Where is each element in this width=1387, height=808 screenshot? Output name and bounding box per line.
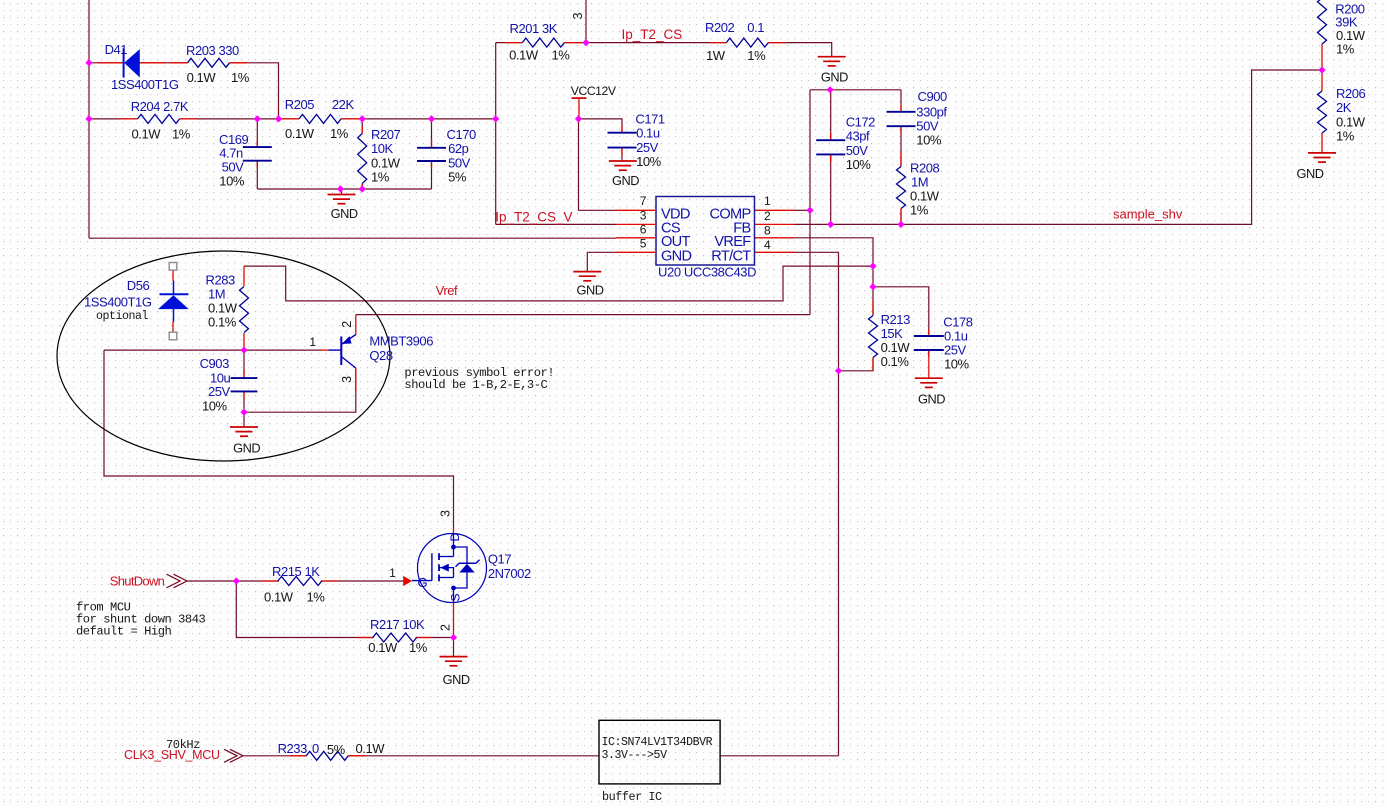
pin stubs C172 xyxy=(830,133,832,140)
svg-text:2: 2 xyxy=(340,321,354,328)
svg-text:Ip_T2_CS: Ip_T2_CS xyxy=(622,27,683,42)
pin stubs U20 left xyxy=(616,209,655,211)
svg-text:1%: 1% xyxy=(371,170,390,185)
svg-text:R204 2.7K: R204 2.7K xyxy=(131,99,189,114)
svg-text:C171: C171 xyxy=(635,112,664,127)
svg-text:GND: GND xyxy=(443,672,470,687)
svg-text:1%: 1% xyxy=(747,48,766,63)
wire R215 to gate arrow xyxy=(321,580,404,582)
wire ShutDown down to R217 row xyxy=(236,581,373,638)
wire base net left + down xyxy=(104,350,454,528)
svg-text:S: S xyxy=(449,593,463,601)
svg-text:3: 3 xyxy=(571,13,585,20)
svg-text:70kHz: 70kHz xyxy=(166,738,200,752)
svg-text:50V: 50V xyxy=(916,119,939,134)
svg-text:5: 5 xyxy=(640,236,647,250)
transistor Q28 xyxy=(329,349,342,351)
svg-text:1: 1 xyxy=(309,335,316,349)
svg-text:3: 3 xyxy=(340,376,354,383)
pin stubs C170 xyxy=(431,140,433,148)
resistor R207 xyxy=(358,134,367,184)
wire R283 top lead xyxy=(243,266,245,286)
pin stub D41 left xyxy=(98,62,124,64)
svg-text:buffer IC: buffer IC xyxy=(602,790,662,804)
svg-text:R208: R208 xyxy=(910,161,939,176)
svg-text:1: 1 xyxy=(764,194,771,208)
transistor Q17 xyxy=(418,534,487,603)
svg-text:10%: 10% xyxy=(219,174,245,189)
resistor R204 xyxy=(138,114,180,123)
svg-text:7: 7 xyxy=(640,194,647,208)
svg-text:C900: C900 xyxy=(918,89,947,104)
svg-text:0.1u: 0.1u xyxy=(636,126,660,141)
wire R204 row a xyxy=(89,118,138,120)
wire VCC node to C171 xyxy=(579,119,623,133)
svg-text:1M: 1M xyxy=(911,175,928,190)
wire C169 top lead xyxy=(256,119,258,147)
svg-text:1W: 1W xyxy=(706,48,726,63)
svg-text:default = High: default = High xyxy=(76,625,171,639)
resistor R206 xyxy=(1318,91,1327,133)
wire top right horizontal y89.8 xyxy=(810,89,901,91)
GND symbol C171 xyxy=(609,160,637,162)
resistor R217 xyxy=(373,633,417,642)
svg-text:0.1W: 0.1W xyxy=(910,189,940,204)
gate arrow Q17 pin 1 xyxy=(404,576,412,585)
svg-text:GND: GND xyxy=(612,173,639,188)
svg-text:GND: GND xyxy=(233,441,260,456)
wire GND stem R207 row xyxy=(341,189,343,195)
wire OUT net to U20 pin 6 xyxy=(89,237,616,239)
wire C178 branch xyxy=(873,287,929,336)
wire ShutDown to R215 xyxy=(187,580,279,582)
svg-text:R207: R207 xyxy=(371,127,400,142)
GND symbol R207 row xyxy=(328,194,356,196)
wire left vertical bus x=89 xyxy=(88,0,90,238)
svg-text:1SS400T1G: 1SS400T1G xyxy=(111,77,179,92)
svg-text:8: 8 xyxy=(764,223,771,237)
GND symbol C178 xyxy=(915,377,943,379)
svg-text:D41: D41 xyxy=(105,42,128,57)
svg-text:330pf: 330pf xyxy=(916,105,947,120)
svg-text:1M: 1M xyxy=(208,287,225,302)
wire C171 to GND xyxy=(621,148,623,161)
wire VCC12V stem xyxy=(578,98,580,119)
wire node to C903 xyxy=(243,350,245,378)
wire Q28 collector lead xyxy=(244,368,356,412)
svg-text:ShutDown: ShutDown xyxy=(110,574,165,589)
wire C903 bottom lead xyxy=(243,391,245,412)
wire VREF row to R213 top xyxy=(795,238,874,287)
GND symbol R202 xyxy=(818,56,846,58)
svg-text:should be 1-B,2-E,3-C: should be 1-B,2-E,3-C xyxy=(404,378,547,392)
svg-text:4: 4 xyxy=(764,238,771,252)
svg-text:R203 330: R203 330 xyxy=(186,43,239,58)
wire C170 bottom lead xyxy=(431,161,433,189)
pin stub D56 bottom xyxy=(172,322,174,333)
wire FB / sample_shv net xyxy=(795,70,1323,224)
wire base row to Q28 xyxy=(104,349,321,351)
buffer IC box xyxy=(599,720,720,784)
wire R201 row left xyxy=(496,42,523,44)
svg-text:R206: R206 xyxy=(1336,86,1365,101)
wire U20 GND pin to GND symbol xyxy=(587,252,616,271)
wire D41 to R203 xyxy=(140,62,188,64)
svg-text:0.1W: 0.1W xyxy=(208,301,238,316)
power symbol VCC12V xyxy=(572,97,587,99)
svg-text:62p: 62p xyxy=(448,141,469,156)
pin stubs C900 xyxy=(900,105,902,112)
svg-text:1%: 1% xyxy=(1336,128,1355,143)
svg-text:D: D xyxy=(448,533,462,542)
svg-text:10%: 10% xyxy=(202,399,228,414)
svg-text:5%: 5% xyxy=(448,169,467,184)
op-amp U20 UCC38C43D box xyxy=(656,197,755,266)
svg-text:R202: R202 xyxy=(705,20,734,35)
svg-text:0: 0 xyxy=(312,741,319,756)
svg-text:1%: 1% xyxy=(552,48,571,63)
svg-text:2: 2 xyxy=(764,209,771,223)
svg-text:10%: 10% xyxy=(916,133,942,148)
wire C900 top lead xyxy=(900,90,902,112)
wire bottom row C169-C170 xyxy=(257,188,431,190)
svg-text:1%: 1% xyxy=(307,590,326,605)
wire R203 to corner down to R204 row xyxy=(230,63,279,119)
svg-text:50V: 50V xyxy=(222,159,245,174)
svg-text:50V: 50V xyxy=(448,156,471,171)
svg-text:3.3V--->5V: 3.3V--->5V xyxy=(602,749,668,762)
wire buffer output xyxy=(720,755,838,757)
svg-text:GND: GND xyxy=(821,70,848,85)
svg-text:R201 3K: R201 3K xyxy=(510,21,558,36)
svg-text:10%: 10% xyxy=(846,157,872,172)
svg-text:R205: R205 xyxy=(285,97,314,112)
resistor R208 xyxy=(897,167,906,209)
svg-text:5%: 5% xyxy=(327,742,346,757)
svg-text:2: 2 xyxy=(439,624,453,631)
svg-text:D56: D56 xyxy=(127,278,150,293)
wire R283 bottom to node xyxy=(243,333,245,350)
wire CLK3 to R233 xyxy=(242,755,306,757)
svg-text:IC:SN74LV1T34DBVR: IC:SN74LV1T34DBVR xyxy=(602,736,713,749)
wire R200 bottom lead xyxy=(1321,44,1323,70)
svg-text:R233: R233 xyxy=(278,741,307,756)
resistor R233 xyxy=(306,751,348,760)
svg-text:1%: 1% xyxy=(910,203,929,218)
pin stub Q28 base xyxy=(321,349,329,351)
svg-text:1%: 1% xyxy=(231,70,250,85)
pin stub Q28 collector xyxy=(355,368,357,392)
svg-text:Vref: Vref xyxy=(436,283,458,298)
resistor R213 xyxy=(869,316,878,358)
wire R204 row b xyxy=(180,118,300,120)
pin stubs R205 xyxy=(281,118,299,120)
svg-text:R283: R283 xyxy=(206,273,235,288)
svg-text:0.1%: 0.1% xyxy=(208,315,237,330)
svg-text:GND: GND xyxy=(918,392,945,407)
svg-text:0.1W: 0.1W xyxy=(356,741,386,756)
svg-text:0.1%: 0.1% xyxy=(881,354,910,369)
svg-text:25V: 25V xyxy=(944,343,967,358)
svg-text:1SS400T1G: 1SS400T1G xyxy=(84,295,152,310)
svg-text:Q28: Q28 xyxy=(369,348,392,363)
diode D56 xyxy=(173,281,175,295)
svg-text:0.1W: 0.1W xyxy=(509,48,539,63)
svg-text:C170: C170 xyxy=(447,127,476,142)
svg-text:Q17: Q17 xyxy=(488,552,511,567)
wire COMP to Q28 emitter xyxy=(356,314,810,316)
GND symbol U20 GND pin xyxy=(573,271,601,273)
unconnected pin square D56 bottom xyxy=(169,332,177,340)
svg-text:C172: C172 xyxy=(846,115,875,130)
svg-text:RT/CT: RT/CT xyxy=(711,248,751,264)
GND symbol Q17 source xyxy=(440,656,468,658)
GND symbol R206 xyxy=(1308,152,1336,154)
wire vertical x495.7 R201 row to CS row xyxy=(495,43,497,225)
svg-text:GND: GND xyxy=(1296,166,1323,181)
wire D41 row left xyxy=(89,62,124,64)
wire Q28 emitter riser xyxy=(355,315,357,335)
pin stubs R213 xyxy=(872,301,874,316)
junction dots xyxy=(85,59,92,66)
svg-text:6: 6 xyxy=(640,223,647,237)
svg-text:2N7002: 2N7002 xyxy=(488,566,531,581)
pin stubs R207 xyxy=(361,126,363,134)
resistor R202 xyxy=(726,38,768,47)
pin stubs R215 xyxy=(262,580,279,582)
capacitor C171 xyxy=(608,132,637,134)
svg-text:43pf: 43pf xyxy=(846,129,870,144)
wire R213 leads xyxy=(839,287,874,371)
pin stubs R203 xyxy=(170,62,188,64)
pin stubs U20 right xyxy=(755,209,795,211)
wire R207 top lead xyxy=(361,119,363,134)
unconnected pin square D56 top xyxy=(169,263,177,271)
svg-text:G: G xyxy=(418,575,428,590)
wire R202 to GND corner xyxy=(768,43,831,57)
svg-text:0.1W: 0.1W xyxy=(371,156,401,171)
wire COMP net vertical x810 xyxy=(809,90,811,315)
svg-text:10K: 10K xyxy=(371,141,394,156)
pin stubs C169 xyxy=(256,140,258,147)
svg-text:Ip_T2_CS_V: Ip_T2_CS_V xyxy=(495,210,572,225)
wire C178 to GND xyxy=(928,350,930,378)
resistor R203 xyxy=(188,58,230,67)
svg-text:GND: GND xyxy=(331,206,358,221)
svg-text:optional: optional xyxy=(96,310,149,323)
svg-text:0.1W: 0.1W xyxy=(132,126,162,141)
pin stubs R208 xyxy=(900,152,902,167)
svg-text:2K: 2K xyxy=(1336,100,1352,115)
wire R206 top lead xyxy=(1321,70,1323,91)
wire C169 bottom lead xyxy=(256,161,258,189)
wire RT/CT net down to buffer xyxy=(795,252,839,756)
svg-text:3: 3 xyxy=(640,208,647,222)
pin stubs R202 xyxy=(709,42,726,44)
capacitor C169 xyxy=(243,146,272,148)
svg-text:1%: 1% xyxy=(409,640,428,655)
resistor R200 xyxy=(1318,0,1327,44)
wire Q17 source node to GND xyxy=(453,638,455,657)
pin stubs R201 xyxy=(505,42,522,44)
capacitor C903 xyxy=(231,377,258,379)
pin stubs R217 xyxy=(357,637,374,639)
pin stubs R204 xyxy=(120,118,138,120)
resistor R215 xyxy=(278,577,322,586)
wire C170 top lead xyxy=(431,119,433,148)
svg-text:15K: 15K xyxy=(881,326,904,341)
svg-text:25V: 25V xyxy=(636,140,659,155)
wire Q17 drain pin xyxy=(453,528,455,534)
wire C903 node to GND xyxy=(243,412,245,427)
svg-text:sample_shv: sample_shv xyxy=(1113,206,1183,221)
wire VCC down to VDD row xyxy=(579,119,617,210)
svg-text:0.1W: 0.1W xyxy=(368,640,398,655)
resistor R205 xyxy=(299,114,341,123)
svg-text:1%: 1% xyxy=(1336,41,1355,56)
svg-text:3: 3 xyxy=(439,510,453,517)
pin stub D41 right xyxy=(140,62,167,64)
svg-text:0.1: 0.1 xyxy=(747,20,764,35)
port ShutDown chevron xyxy=(167,574,188,588)
svg-text:22K: 22K xyxy=(332,97,355,112)
svg-text:C178: C178 xyxy=(943,315,972,330)
svg-text:GND: GND xyxy=(661,248,691,264)
svg-text:0.1W: 0.1W xyxy=(187,70,217,85)
wire top stub x586 xyxy=(585,0,587,43)
wire R206 bottom lead xyxy=(1321,133,1323,153)
capacitor C900 xyxy=(887,111,916,113)
svg-text:C903: C903 xyxy=(200,356,229,371)
wire C172 bottom lead xyxy=(830,154,832,224)
svg-text:0.1W: 0.1W xyxy=(881,340,911,355)
pin stub D56 top xyxy=(172,270,174,281)
resistor R283 xyxy=(240,287,249,333)
wire R207 bottom lead xyxy=(361,184,363,190)
wire CS net (Ip_T2_CS_V) to U20 pin 3 xyxy=(496,223,616,225)
svg-text:10%: 10% xyxy=(944,357,970,372)
capacitor C178 xyxy=(914,335,944,337)
svg-text:0.1u: 0.1u xyxy=(944,329,968,344)
capacitor C172 xyxy=(816,139,845,141)
wire R217 to Q17 source node xyxy=(416,637,454,639)
svg-text:1%: 1% xyxy=(172,126,191,141)
svg-text:0.1W: 0.1W xyxy=(285,126,315,141)
annotation ellipse xyxy=(57,251,390,461)
diode D41 xyxy=(123,48,125,77)
svg-text:GND: GND xyxy=(576,283,603,298)
wire R201 to R202 xyxy=(564,42,726,44)
svg-text:50V: 50V xyxy=(846,143,869,158)
svg-text:0.1W: 0.1W xyxy=(264,590,294,605)
wire R208 bottom lead xyxy=(900,209,902,225)
wire Vref net from R283 xyxy=(244,266,873,301)
svg-text:MMBT3906: MMBT3906 xyxy=(369,334,433,349)
svg-text:4.7n: 4.7n xyxy=(219,146,243,161)
svg-text:R217 10K: R217 10K xyxy=(370,617,425,632)
svg-text:VCC12V: VCC12V xyxy=(571,84,617,98)
wire R205 to corner x495.7 xyxy=(341,118,496,120)
svg-text:U20 UCC38C43D: U20 UCC38C43D xyxy=(658,265,756,280)
wire COMP row stub to vertical xyxy=(795,209,811,211)
pin stubs C903 xyxy=(243,370,245,378)
svg-text:25V: 25V xyxy=(208,384,231,399)
svg-text:R213: R213 xyxy=(881,312,910,327)
wire Q17 source pin xyxy=(453,603,455,638)
capacitor C170 xyxy=(417,147,446,149)
svg-text:1%: 1% xyxy=(330,126,349,141)
wire C172 top lead xyxy=(830,90,832,140)
wire R233 to buffer IC xyxy=(348,755,599,757)
pin stubs R233 xyxy=(290,755,306,757)
GND symbol C903 xyxy=(230,426,258,428)
svg-text:10%: 10% xyxy=(636,154,662,169)
pin stubs C178 xyxy=(928,329,930,336)
wire C900 to R208 xyxy=(900,126,902,166)
port CLK3_SHV_MCU chevron xyxy=(224,749,243,762)
resistor R201 xyxy=(522,38,564,47)
svg-text:R215 1K: R215 1K xyxy=(272,564,320,579)
svg-text:1: 1 xyxy=(389,566,396,580)
svg-text:0.1W: 0.1W xyxy=(1336,115,1366,130)
pin stubs C171 xyxy=(621,126,623,133)
